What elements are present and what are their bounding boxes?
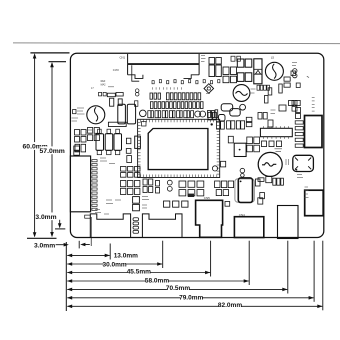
connector CN8 (FFC bottom second) [142, 214, 182, 237]
capacitor block C16-C19 [237, 59, 252, 81]
cap at U1 corner [142, 122, 147, 127]
IC U10 (vertical pair) [133, 197, 140, 204]
resistor bar R5 (two segments) [107, 93, 115, 97]
svg-text:45.5mm: 45.5mm [127, 269, 151, 276]
capacitors C31 C32 (small circles) [240, 168, 245, 173]
silkscreen text col right of CN1 [201, 56, 206, 62]
connector CN3 (FFC bottom-left) [90, 214, 130, 237]
IC U8 pair [289, 100, 294, 105]
small marks right [271, 63, 298, 114]
small cap top-left [73, 110, 76, 114]
small parts row under CN1 [152, 80, 220, 84]
IC U1 (main controller, QFP) [138, 119, 220, 177]
IC U3 (square chip) [234, 143, 246, 156]
svg-text:70.5mm: 70.5mm [166, 285, 190, 292]
cap above U3 [228, 136, 233, 143]
capacitor row (4 squares) [257, 85, 270, 90]
resistor bar R6 [108, 122, 126, 126]
capacitor grid mid-right [247, 137, 260, 152]
cap circle below U3 [212, 166, 217, 171]
speaker SP1 (rounded, corner marks) [293, 155, 314, 171]
marks under speaker [286, 159, 303, 178]
capacitor C15 (tall) [135, 136, 141, 148]
resistor R40 [268, 88, 272, 95]
CN9 pin pads [295, 121, 303, 148]
svg-text:L5: L5 [271, 56, 275, 60]
svg-text:3.0mm: 3.0mm [34, 242, 55, 249]
svg-text:CN1: CN1 [120, 56, 126, 60]
components right of CN1 [209, 56, 240, 82]
connector CN1 (top edge LVDS) [113, 54, 199, 79]
U1 pin ticks [138, 119, 220, 177]
dimension 3.0mm (board left margin) [34, 241, 90, 250]
capacitor pair right [284, 77, 290, 81]
cap vertical U-area [279, 84, 282, 93]
capacitors above CN2 [74, 146, 80, 150]
U1 pin-1 mark [211, 123, 213, 125]
dimension baseline (left) [65, 242, 67, 311]
silkscreen text left [72, 108, 85, 121]
svg-text:CN4: CN4 [239, 213, 245, 217]
resistor trio below L2 [273, 178, 284, 185]
resistor grid below IC [179, 181, 204, 196]
inductor L2 (big circle with wave) [258, 152, 282, 176]
dimension 79.0mm horizontal [67, 241, 314, 302]
resistor row R-array 2 [150, 102, 203, 109]
cap C7 small [291, 71, 296, 76]
capacitor pair top-right (circles) [293, 69, 297, 73]
capacitors C21 C22 (circles) [167, 180, 172, 185]
blob pair left [219, 115, 226, 122]
IC U6 (wide SOIC) [260, 126, 292, 138]
transistors Q3 Q4 Q5 (left-middle) [96, 129, 122, 155]
dimension 60.0mm vertical [23, 53, 70, 238]
svg-text:REF: REF [101, 80, 106, 83]
vertical silkscreen text right [312, 98, 315, 112]
crystal Y1 (circle with wave) [233, 85, 250, 102]
dimension 45.5mm horizontal [67, 241, 211, 277]
background separator line [13, 42, 340, 45]
inductor L1 (circle with coil) [87, 106, 105, 124]
capacitors C13 C14 (vertical) [110, 98, 114, 106]
marks above blobs [206, 90, 211, 94]
resistor cluster right of IC [217, 117, 252, 129]
dimension 3.0mm (board bottom margin) [35, 212, 65, 228]
CN2 pin pads [92, 160, 97, 211]
dimension 82.0mm horizontal [67, 241, 323, 311]
part right of C30 [260, 193, 265, 199]
resistor cluster R26 R10 C20 [121, 167, 141, 178]
dimension 70.5mm horizontal [67, 241, 288, 294]
svg-text:CVO: CVO [113, 68, 120, 72]
svg-text:57.0mm: 57.0mm [40, 148, 65, 155]
dimension 57.0mm vertical [27, 62, 66, 239]
diode D1 (tall with symbol) [254, 59, 262, 84]
svg-text:13.0mm: 13.0mm [114, 253, 138, 260]
dimension 30.0mm horizontal [67, 241, 163, 269]
connector CN6 (bottom right) [278, 206, 299, 239]
FFC A left edge extension [90, 217, 92, 246]
marks below L1 [86, 130, 93, 133]
left edge capacitor grid [75, 130, 87, 143]
marks right of Y1 [251, 89, 256, 93]
svg-text:79.0mm: 79.0mm [179, 295, 203, 302]
resistor row R-array 1 [150, 93, 201, 100]
capacitor C30 (tantalum, bottom middle-right) [235, 178, 255, 203]
PCB board outline [70, 53, 323, 237]
parts under U6 [262, 141, 267, 147]
small caps near Q3 [126, 138, 131, 162]
small caps left of C21 [156, 181, 160, 187]
connector CN9 (right edge HDMI) [305, 116, 323, 148]
connector CN7 (right edge, thick) [305, 190, 324, 216]
dimension 58.0mm horizontal [67, 241, 249, 285]
cap right of C30 [255, 179, 260, 186]
rect mid right [279, 105, 286, 111]
cap right of blobs [268, 120, 273, 127]
capacitor pair C40 [208, 112, 212, 120]
CN3 tab [85, 215, 91, 218]
svg-text:30.0mm: 30.0mm [102, 261, 126, 268]
U1 body [148, 129, 208, 170]
pads above CN9 [292, 101, 297, 106]
transistors Q1 Q2 [118, 104, 126, 124]
vertical silkscreen text left of CN7 [305, 187, 309, 198]
svg-text:82.0mm: 82.0mm [218, 302, 242, 309]
caps left of U6 top [258, 113, 262, 120]
dimension 13.0mm horizontal [67, 244, 138, 260]
resistor row above FFC B [164, 194, 195, 208]
silkscreen marks above FFC connectors [106, 197, 149, 209]
parts below L2 [258, 178, 264, 182]
diode D3 (diamond) [204, 84, 214, 94]
silkscreen marks bottom-left [95, 210, 109, 215]
svg-text:3.0mm: 3.0mm [35, 214, 56, 221]
silkscreen marks left-mid [100, 158, 115, 164]
capacitor cluster below L1 [75, 128, 99, 152]
mixed row above IC [140, 110, 218, 118]
inductor L5 (circle with coil) [265, 62, 283, 80]
connector CN4 (bottom) [234, 217, 263, 238]
pads between FFC connectors [133, 218, 139, 233]
svg-text:MA2: MA2 [101, 84, 107, 87]
stacked pair right [296, 108, 301, 113]
wire from CN1 [132, 65, 139, 81]
tiny circles pair left of R-array [135, 89, 139, 93]
connector CN2 (left edge) [70, 156, 90, 212]
svg-text:58.0mm: 58.0mm [145, 278, 169, 285]
silkscreen text row [153, 87, 182, 89]
component grid left-mid bottom [121, 179, 153, 195]
marks under L2 [275, 149, 283, 152]
cap vertical right of 4-squares [265, 96, 269, 104]
capacitors C11 C12 [99, 92, 102, 96]
connector CN5 (micro USB) [196, 200, 223, 237]
part above CN4 [225, 202, 230, 207]
resistor group right below IC [215, 181, 234, 196]
transistor blobs right of IC top [221, 104, 245, 116]
svg-text:CN5: CN5 [204, 196, 210, 200]
